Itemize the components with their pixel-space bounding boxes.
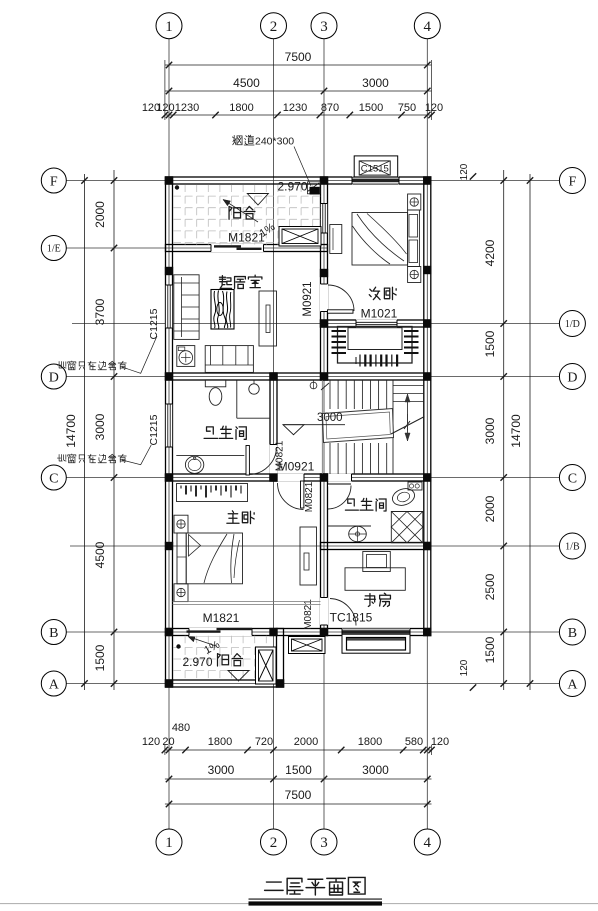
svg-text:F: F <box>50 174 58 189</box>
svg-text:580: 580 <box>405 736 423 748</box>
svg-text:2000: 2000 <box>483 495 497 522</box>
svg-text:3000: 3000 <box>362 763 389 777</box>
svg-text:2: 2 <box>270 835 278 851</box>
svg-text:1/D: 1/D <box>565 319 580 330</box>
svg-text:4: 4 <box>424 19 432 35</box>
svg-text:3000: 3000 <box>93 413 107 440</box>
svg-text:2.970: 2.970 <box>277 180 307 194</box>
svg-text:1: 1 <box>165 19 173 35</box>
svg-text:M0821: M0821 <box>304 481 315 512</box>
svg-text:2000: 2000 <box>93 201 107 228</box>
svg-text:3700: 3700 <box>93 298 107 325</box>
svg-text:120: 120 <box>459 659 470 676</box>
svg-text:D: D <box>567 370 577 385</box>
svg-text:870: 870 <box>321 102 339 114</box>
svg-text:120: 120 <box>425 102 443 114</box>
svg-text:B: B <box>49 626 58 641</box>
svg-text:14700: 14700 <box>64 414 78 448</box>
svg-text:1230: 1230 <box>283 102 307 114</box>
svg-text:1500: 1500 <box>93 644 107 671</box>
svg-text:F: F <box>569 174 577 189</box>
svg-text:20: 20 <box>162 736 174 748</box>
svg-text:M0821: M0821 <box>303 599 314 630</box>
svg-text:2000: 2000 <box>294 736 318 748</box>
svg-text:480: 480 <box>172 722 190 734</box>
svg-text:2.970: 2.970 <box>182 655 212 669</box>
svg-text:1500: 1500 <box>359 102 383 114</box>
svg-text:C1215: C1215 <box>148 414 160 445</box>
svg-text:M1821: M1821 <box>203 611 240 625</box>
svg-text:1: 1 <box>165 835 173 851</box>
svg-text:B: B <box>568 626 577 641</box>
svg-text:120: 120 <box>431 736 449 748</box>
svg-text:3000: 3000 <box>317 412 343 424</box>
svg-text:14700: 14700 <box>509 414 523 448</box>
svg-text:1/E: 1/E <box>47 244 61 255</box>
svg-text:120: 120 <box>459 163 470 180</box>
svg-text:D: D <box>49 370 59 385</box>
svg-text:M0821: M0821 <box>275 440 286 471</box>
svg-text:3000: 3000 <box>483 417 497 444</box>
svg-text:120: 120 <box>156 102 174 114</box>
svg-text:1500: 1500 <box>285 763 312 777</box>
svg-text:1/B: 1/B <box>565 542 580 553</box>
svg-text:1500: 1500 <box>483 636 497 663</box>
svg-text:2: 2 <box>270 19 278 35</box>
svg-text:1230: 1230 <box>175 102 199 114</box>
svg-text:7500: 7500 <box>285 50 312 64</box>
svg-text:4: 4 <box>424 835 432 851</box>
svg-text:A: A <box>49 677 60 692</box>
svg-text:720: 720 <box>255 736 273 748</box>
svg-text:M0921: M0921 <box>302 281 314 316</box>
svg-text:3: 3 <box>320 19 328 35</box>
svg-text:A: A <box>567 677 578 692</box>
svg-text:TC1815: TC1815 <box>330 611 373 625</box>
svg-text:4200: 4200 <box>483 239 497 266</box>
svg-text:750: 750 <box>398 102 416 114</box>
svg-text:4500: 4500 <box>93 541 107 568</box>
svg-text:120: 120 <box>142 736 160 748</box>
svg-text:1800: 1800 <box>358 736 382 748</box>
svg-text:C: C <box>49 471 58 486</box>
svg-text:7500: 7500 <box>285 788 312 802</box>
svg-text:2500: 2500 <box>483 573 497 600</box>
svg-text:4500: 4500 <box>233 76 260 90</box>
svg-text:M1021: M1021 <box>361 307 398 321</box>
svg-text:3: 3 <box>320 835 328 851</box>
svg-text:240*300: 240*300 <box>255 136 294 148</box>
svg-text:C: C <box>568 471 577 486</box>
svg-text:3000: 3000 <box>208 763 235 777</box>
svg-text:1800: 1800 <box>229 102 253 114</box>
svg-text:1500: 1500 <box>483 330 497 357</box>
svg-text:C1215: C1215 <box>148 308 160 339</box>
svg-text:3000: 3000 <box>362 76 389 90</box>
svg-text:1800: 1800 <box>208 736 232 748</box>
